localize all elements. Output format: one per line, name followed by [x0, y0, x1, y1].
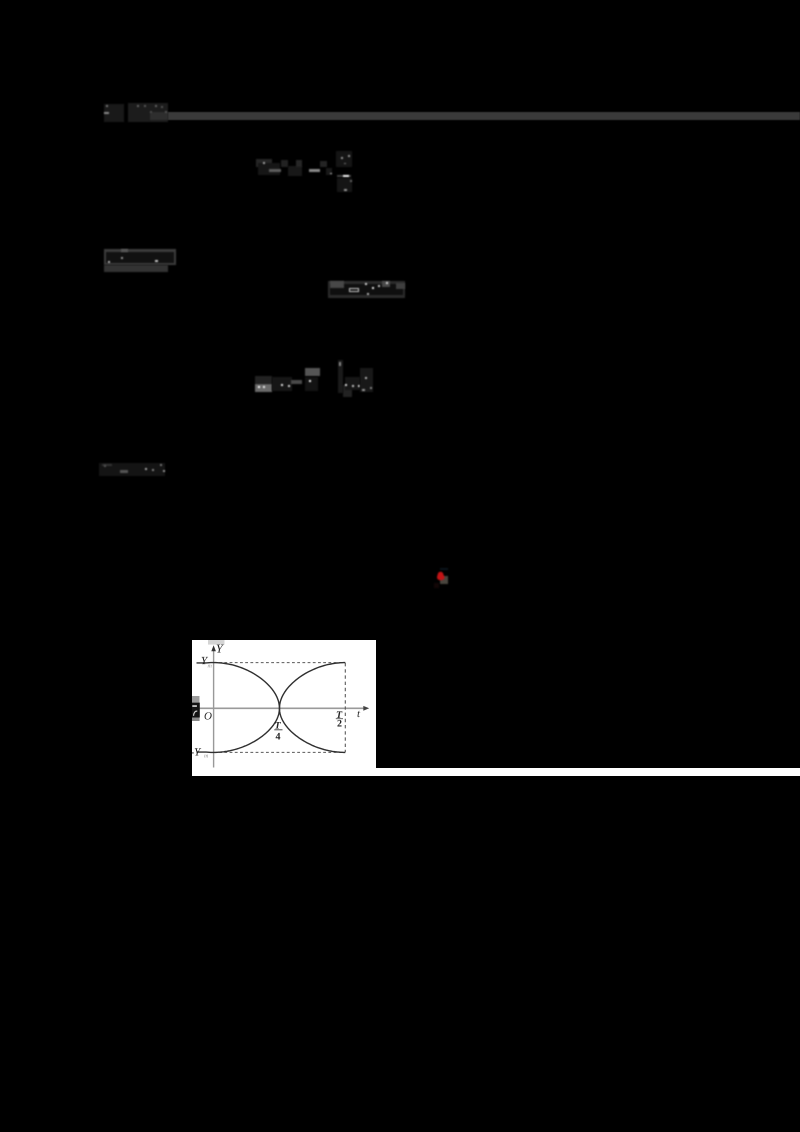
heading text blob left — [104, 104, 124, 122]
svg-text:m: m — [204, 753, 209, 759]
svg-text:O: O — [204, 710, 212, 722]
light gray block top — [208, 640, 225, 645]
dashed Ym line — [214, 662, 345, 664]
overlap block at left edge — [192, 696, 200, 703]
dashed -Ym line — [214, 751, 345, 753]
graph svg — [192, 640, 376, 776]
dark red speck — [434, 583, 439, 588]
svg-text:2: 2 — [337, 719, 342, 730]
gray square — [440, 576, 448, 584]
figure: white strip right — [376, 768, 800, 776]
curve 1 — [197, 663, 346, 753]
heading text blob right — [128, 103, 168, 122]
horizontal rule — [168, 112, 800, 120]
Y axis — [213, 649, 215, 768]
svg-text:4: 4 — [275, 731, 280, 742]
dashed vertical T/2 — [344, 663, 346, 752]
curve 2 — [197, 663, 346, 753]
svg-text:t: t — [357, 708, 361, 720]
t axis — [193, 707, 365, 709]
svg-text:m: m — [208, 663, 213, 669]
equation 3 — [255, 376, 272, 384]
text line 2 — [104, 249, 176, 265]
equation 2 — [328, 281, 405, 298]
figure: white box — [192, 640, 376, 776]
red icon — [435, 570, 447, 583]
blue tint bar — [440, 568, 449, 571]
equation 1 — [256, 159, 272, 167]
text line 3 — [99, 463, 165, 476]
